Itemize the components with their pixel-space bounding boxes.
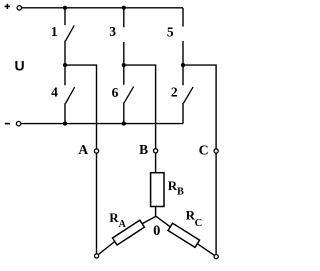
- svg-text:0: 0: [153, 223, 160, 239]
- junction midpoint leg 1-4: [63, 63, 67, 67]
- svg-text:5: 5: [167, 24, 174, 39]
- wire phase B tap: [124, 65, 156, 216]
- switch 6 lower wire: [123, 102, 125, 123]
- phase C load terminal circle: [214, 255, 218, 259]
- switch 4 lower wire: [64, 103, 66, 123]
- resistor RC: [168, 223, 200, 247]
- junction bottom bus leg 6: [122, 122, 126, 126]
- wire phase A tap: [65, 65, 97, 256]
- switch 1 blade: [66, 25, 75, 41]
- svg-text:1: 1: [51, 24, 58, 39]
- switch 2 lower wire: [182, 103, 184, 124]
- switch 6 blade: [124, 86, 133, 102]
- junction top bus leg 1: [63, 6, 67, 10]
- junction midpoint leg 5-2: [181, 63, 185, 67]
- resistor RB: [151, 173, 164, 207]
- svg-text:3: 3: [109, 24, 116, 39]
- junction midpoint leg 3-6: [122, 63, 126, 67]
- positive terminal circle: [17, 6, 21, 10]
- bottom bus wire: [19, 123, 183, 125]
- svg-text:2: 2: [171, 85, 178, 100]
- top bus wire: [19, 7, 183, 9]
- wire node 0 to RA: [142, 216, 156, 223]
- svg-text:6: 6: [112, 85, 119, 100]
- switch 4 blade: [66, 87, 75, 104]
- node A circle: [94, 149, 98, 153]
- negative terminal circle: [16, 121, 20, 125]
- wire node 0 to RC: [156, 216, 170, 227]
- svg-text:A: A: [78, 142, 88, 157]
- node C circle: [214, 149, 218, 153]
- switch 2 upper contact wire: [182, 65, 184, 85]
- svg-text:4: 4: [51, 84, 58, 99]
- resistor RA: [113, 220, 145, 245]
- switch 1 lower wire: [64, 41, 66, 66]
- phase A load terminal circle: [95, 254, 99, 258]
- switch 5 upper contact wire: [182, 8, 184, 27]
- svg-text:C: C: [199, 142, 209, 157]
- switch 2 blade: [184, 87, 194, 103]
- junction top bus leg 3: [122, 6, 126, 10]
- svg-text:B: B: [139, 142, 148, 157]
- switch 5 lower wire: [182, 41, 184, 65]
- wire phase C tap: [183, 65, 216, 257]
- switch 6 upper contact wire: [123, 65, 125, 85]
- switch 4 upper contact wire: [64, 65, 66, 85]
- switch 1 upper contact wire: [64, 8, 66, 25]
- minus terminal sign: [5, 123, 10, 125]
- svg-text:U: U: [14, 58, 24, 74]
- node B circle: [154, 149, 158, 153]
- switch 3 lower wire: [123, 42, 125, 65]
- plus terminal sign: [5, 4, 11, 9]
- wire RA to phase A terminal: [97, 242, 115, 256]
- switch 3 upper contact wire: [123, 8, 125, 28]
- wire RC to phase C terminal: [197, 244, 216, 257]
- junction bottom bus leg 4: [63, 122, 67, 126]
